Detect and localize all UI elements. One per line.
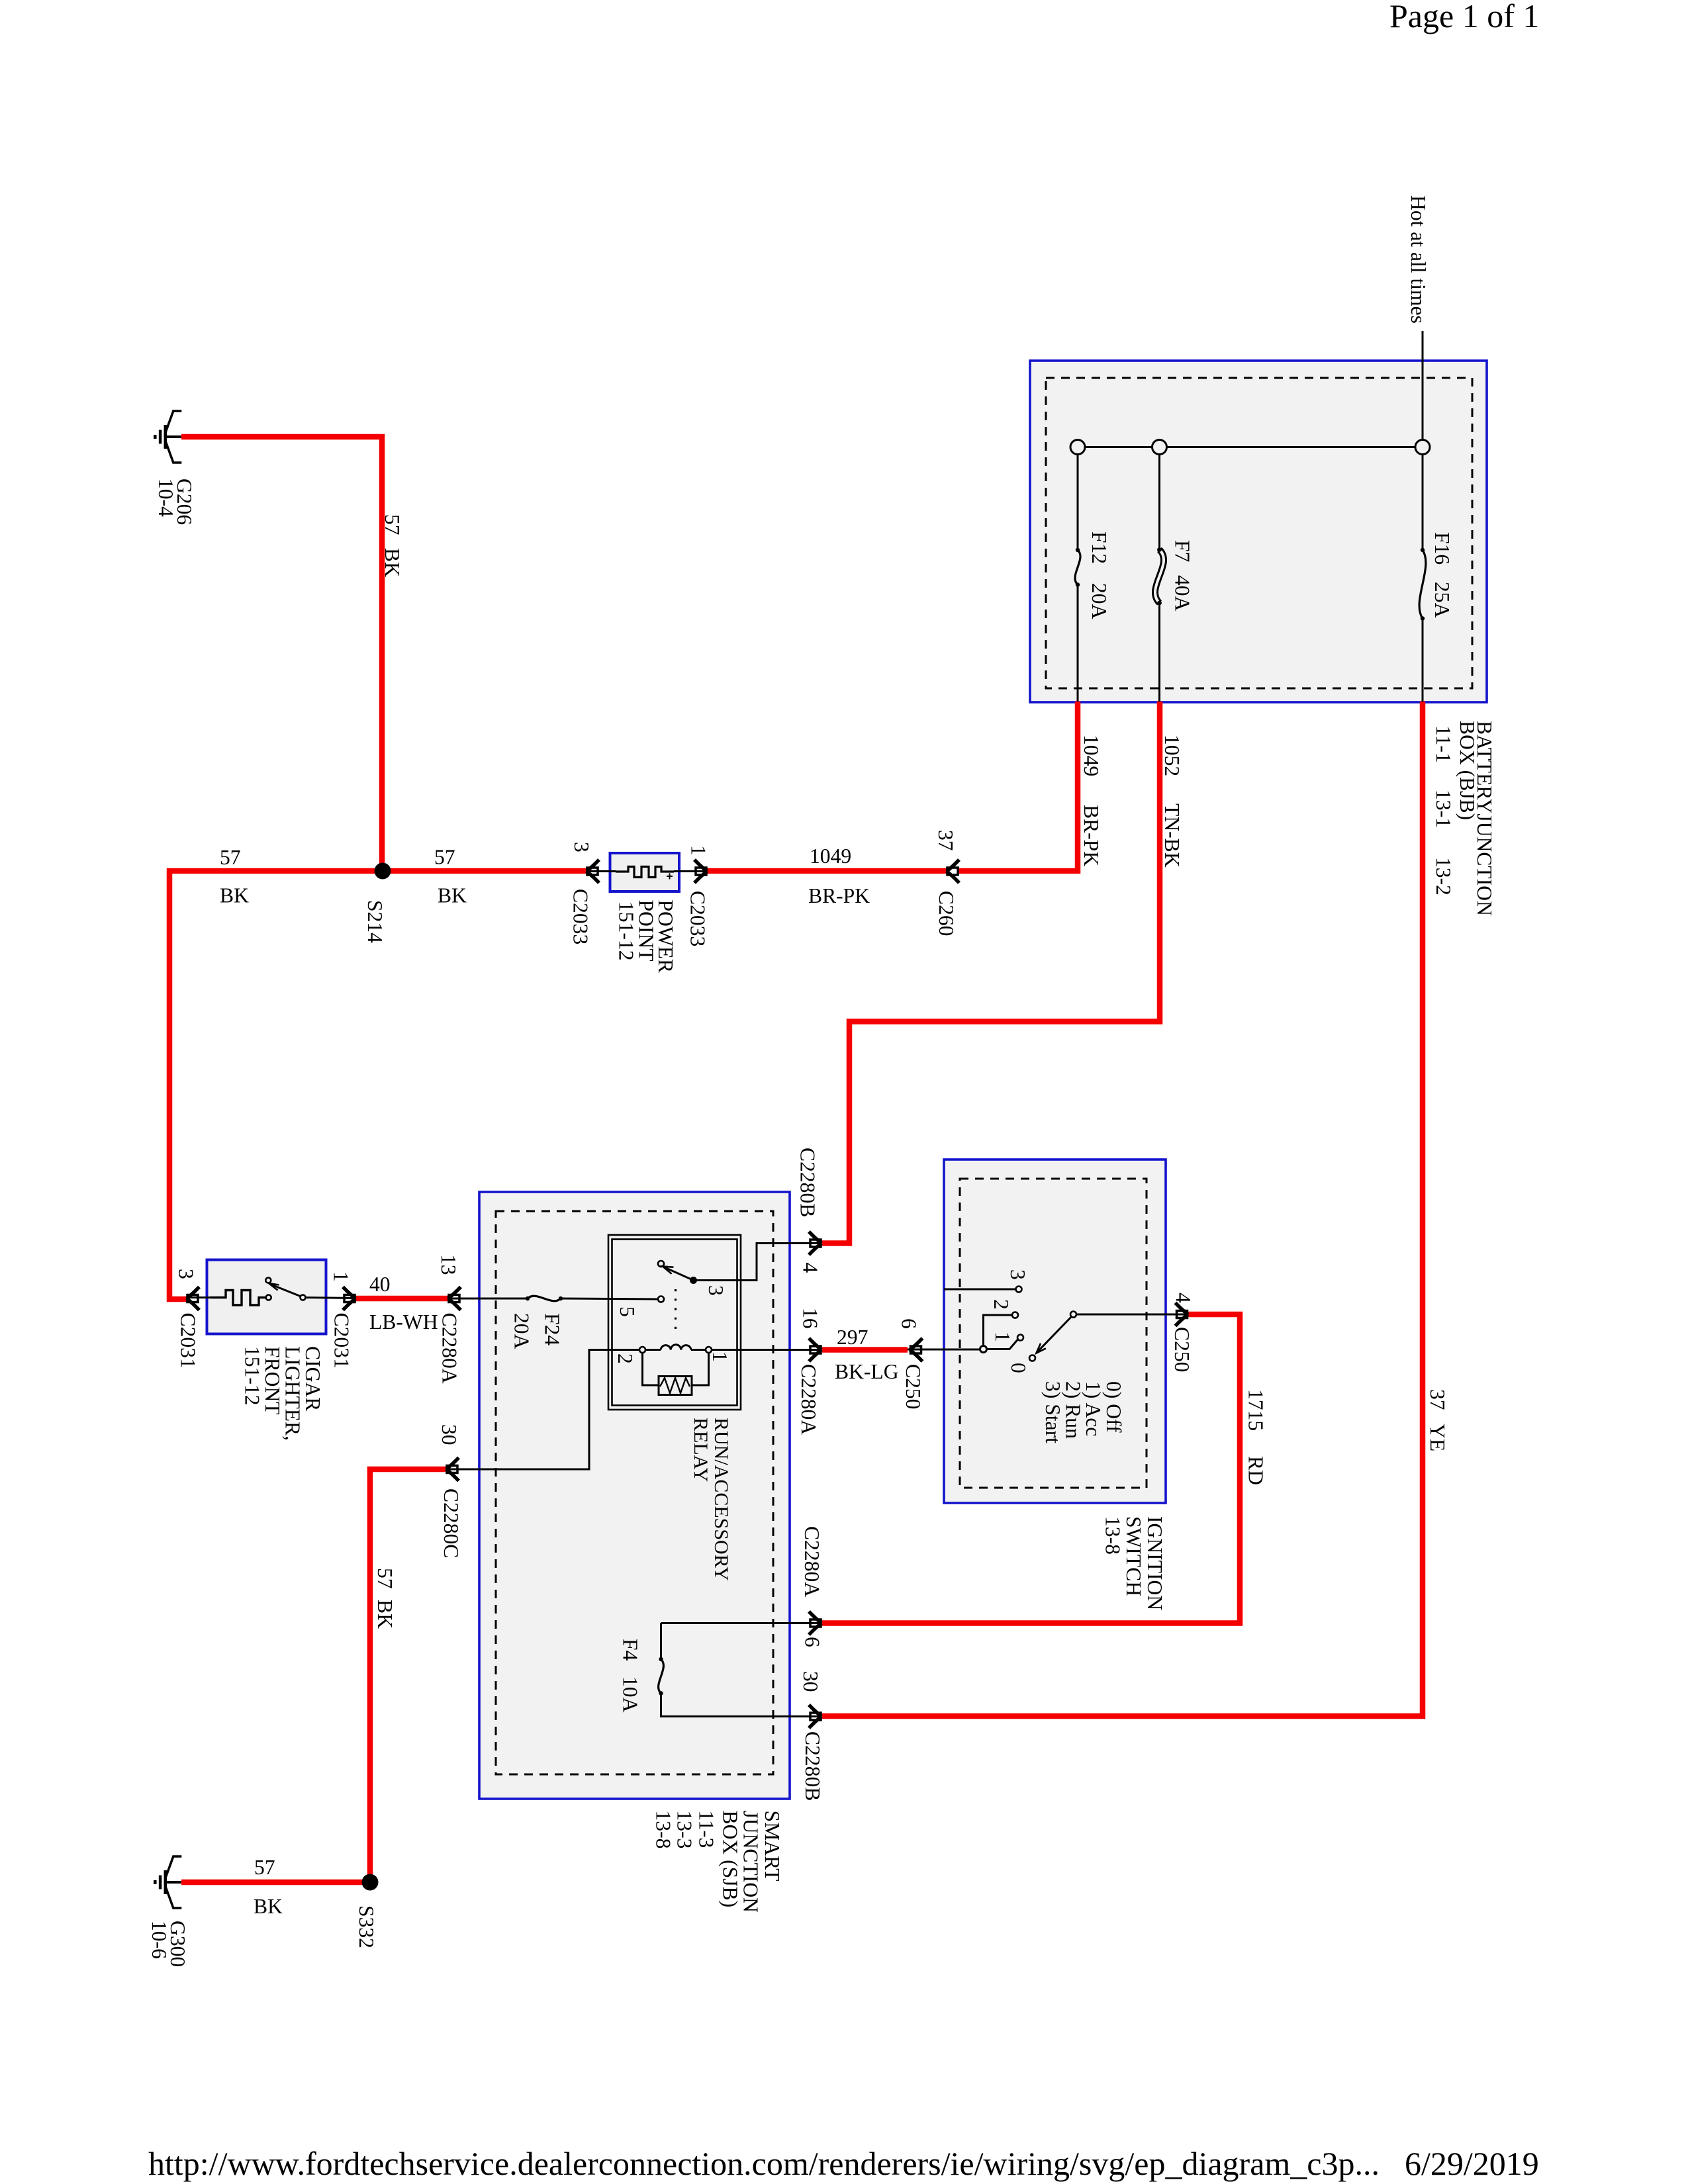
ground G206 <box>155 411 181 463</box>
svg-text:C2031: C2031 <box>330 1313 353 1369</box>
svg-text:151-12: 151-12 <box>241 1346 264 1406</box>
splice S332 <box>362 1874 379 1891</box>
svg-text:C2280A: C2280A <box>438 1313 461 1384</box>
svg-text:57: 57 <box>254 1856 275 1879</box>
ignition contact 0 <box>1029 1355 1035 1361</box>
svg-text:1049: 1049 <box>1080 735 1103 776</box>
svg-text:1: 1 <box>991 1332 1014 1342</box>
svg-text:3) Start: 3) Start <box>1041 1381 1064 1443</box>
svg-text:0: 0 <box>1007 1363 1030 1373</box>
svg-text:30: 30 <box>799 1671 822 1692</box>
svg-text:BK: BK <box>220 884 249 907</box>
svg-text:C2280B: C2280B <box>801 1731 824 1801</box>
fuse F7 40A (fusible link) <box>1158 455 1160 550</box>
svg-text:C2280A: C2280A <box>797 1364 820 1435</box>
svg-text:297: 297 <box>837 1326 868 1349</box>
splice S214 <box>375 863 391 880</box>
svg-text:YE: YE <box>1426 1424 1449 1451</box>
svg-text:4: 4 <box>1172 1293 1195 1303</box>
svg-text:RD: RD <box>1244 1456 1268 1485</box>
svg-text:F16: F16 <box>1430 532 1454 565</box>
wire from C2033 pin 3 into power point <box>586 870 616 872</box>
svg-text:F7: F7 <box>1171 540 1194 562</box>
svg-text:SWITCH: SWITCH <box>1122 1516 1145 1596</box>
ignition contact 2 <box>1012 1312 1018 1318</box>
BJB bus node F12 <box>1070 440 1085 455</box>
svg-text:13-2: 13-2 <box>1432 857 1455 895</box>
svg-text:F24: F24 <box>541 1313 564 1345</box>
svg-text:37: 37 <box>934 830 957 851</box>
cigar lighter heater element <box>211 1291 265 1306</box>
ignition junction node <box>980 1346 987 1353</box>
cigar lighter upper contact <box>265 1278 271 1283</box>
svg-text:C250: C250 <box>902 1364 925 1409</box>
relay coil <box>639 1347 645 1353</box>
wire from relay pin 2 to C2280C pin 30 <box>446 1350 639 1470</box>
ignition switch pin 3 wire <box>944 1289 1015 1291</box>
relay resistor parallel branch <box>643 1353 659 1385</box>
svg-text:BOX (BJB): BOX (BJB) <box>1456 721 1479 820</box>
connector C250 pin 4 arrow <box>1176 1303 1188 1326</box>
svg-text:1052: 1052 <box>1160 735 1184 776</box>
BJB bus node F7 <box>1152 440 1167 455</box>
svg-text:13: 13 <box>437 1254 460 1275</box>
svg-text:BK: BK <box>373 1600 397 1629</box>
wire from C2280A pin 13 to fuse F24 <box>448 1298 528 1300</box>
wire 1049 BR-PK from C2033 pin 1 to C260 <box>707 868 947 874</box>
wire 1049 BR-PK from C260 up to BJB fuse F12 <box>959 702 1078 871</box>
wire 40 LB-WH from cigar lighter C2031 pin 1 to SJB C2280A pin 13 <box>355 1296 448 1302</box>
wire 297 BK-LG from SJB C2280A pin 16 to ignition switch C250 pin 6 <box>822 1347 908 1353</box>
wire from C2031 pin 3 into cigar lighter <box>187 1297 211 1298</box>
svg-text:10-6: 10-6 <box>148 1921 171 1959</box>
connector C2033 pin 1 arrow <box>694 860 707 883</box>
run/accessory relay double box <box>608 1235 741 1410</box>
smart junction box (SJB) outline <box>479 1192 790 1799</box>
battery junction box (BJB) outline <box>1030 361 1487 702</box>
svg-text:30: 30 <box>438 1424 461 1445</box>
wire from relay pin 1 to C2280A pin 16 <box>712 1349 821 1351</box>
svg-text:C260: C260 <box>935 891 958 936</box>
svg-text:11-3: 11-3 <box>695 1811 718 1848</box>
svg-text:40A: 40A <box>1171 575 1194 612</box>
svg-text:3: 3 <box>1006 1269 1029 1280</box>
BJB internal bus <box>1078 446 1423 448</box>
svg-text:20A: 20A <box>510 1313 534 1349</box>
relay switch arm with arrow <box>690 1277 697 1284</box>
svg-text:6: 6 <box>801 1637 824 1647</box>
junction to contact 2 <box>984 1315 1013 1346</box>
ignition switch box outline <box>944 1160 1166 1503</box>
svg-text:57: 57 <box>220 846 241 869</box>
svg-text:BK: BK <box>381 548 404 577</box>
svg-text:BOX (SJB): BOX (SJB) <box>719 1811 742 1908</box>
svg-text:11-1: 11-1 <box>1432 725 1455 763</box>
svg-text:TN-BK: TN-BK <box>1160 803 1184 868</box>
svg-text:RUN/ACCESSORY: RUN/ACCESSORY <box>710 1418 732 1581</box>
svg-text:F4: F4 <box>619 1639 642 1661</box>
wire 57 BK from S214 left and down to cigar lighter C2031 pin 3 <box>169 871 383 1299</box>
svg-text:3: 3 <box>704 1285 727 1296</box>
svg-text:C2280C: C2280C <box>440 1488 463 1558</box>
relay pin 5 contact <box>658 1297 664 1302</box>
svg-text:10-4: 10-4 <box>154 478 177 517</box>
svg-text:10A: 10A <box>619 1676 642 1713</box>
svg-text:3: 3 <box>175 1269 198 1279</box>
ignition switch dashed inner border <box>960 1179 1147 1488</box>
svg-text:Page 1 of 1: Page 1 of 1 <box>1389 0 1539 34</box>
svg-text:57: 57 <box>434 846 455 869</box>
wire 37 YE from BJB fuse F16 down to SJB C2280B pin 30 <box>822 702 1423 1716</box>
wire 57 BK from S214 to power point C2033 pin 3 <box>383 868 586 874</box>
wire from C250 pin 6 to ignition junction <box>908 1349 980 1351</box>
connector C2280B pin 4 arrow <box>809 1232 821 1255</box>
connector C2280B pin 30 arrow <box>809 1705 821 1728</box>
svg-text:LB-WH: LB-WH <box>369 1310 438 1334</box>
wire 1715 RD from ignition switch C250 pin 4 to SJB C2280A pin 6 <box>822 1314 1240 1623</box>
cigar lighter right contact <box>301 1295 306 1300</box>
svg-text:6/29/2019: 6/29/2019 <box>1405 2145 1539 2182</box>
ignition contact 3 <box>1016 1287 1022 1293</box>
SJB fuse F4 wire from C2280A pin 6 <box>661 1622 822 1624</box>
relay resistor <box>659 1377 692 1395</box>
svg-text:5: 5 <box>616 1306 639 1317</box>
svg-text:C2031: C2031 <box>177 1313 200 1369</box>
svg-text:1049: 1049 <box>810 844 851 868</box>
fuse F16 25A <box>1422 455 1424 551</box>
svg-text:RELAY: RELAY <box>690 1418 712 1482</box>
svg-text:C2033: C2033 <box>686 891 710 946</box>
svg-text:1: 1 <box>687 845 710 856</box>
wire from cigar lighter to C2031 pin 1 <box>306 1298 356 1298</box>
wire 57 BK from SJB C2280C pin 30 through S332 to G300 <box>181 1469 445 1882</box>
svg-text:BR-PK: BR-PK <box>808 884 870 907</box>
svg-text:C2280B: C2280B <box>796 1148 820 1217</box>
connector C2280A pin 6 arrow <box>809 1612 821 1635</box>
relay mechanical link (dotted) <box>675 1289 677 1332</box>
svg-text:20A: 20A <box>1088 583 1111 619</box>
wire 57 BK from G206 to S214 <box>181 437 382 871</box>
svg-text:4: 4 <box>799 1263 822 1273</box>
svg-text:2: 2 <box>614 1353 637 1364</box>
svg-text:2: 2 <box>990 1299 1013 1310</box>
svg-text:0) Off: 0) Off <box>1102 1381 1125 1433</box>
wire from pivot to C250 pin 4 <box>1076 1314 1188 1316</box>
svg-text:http://www.fordtechservice.dea: http://www.fordtechservice.dealerconnect… <box>148 2145 1380 2182</box>
connector C2031 pin 3 arrow <box>187 1287 199 1310</box>
hot at all times feed into BJB <box>1422 331 1424 440</box>
junction to contact 1 <box>987 1340 1018 1349</box>
power point heater element <box>616 867 674 878</box>
svg-text:13-3: 13-3 <box>673 1811 696 1849</box>
fuse F24 20A <box>526 1297 530 1300</box>
svg-text:151-12: 151-12 <box>615 901 638 961</box>
svg-text:16: 16 <box>799 1308 822 1329</box>
svg-text:S332: S332 <box>355 1905 378 1948</box>
cigar lighter box outline <box>207 1260 326 1334</box>
svg-text:BR-PK: BR-PK <box>1080 805 1103 866</box>
svg-text:BK: BK <box>254 1895 283 1918</box>
connector C2033 pin 3 arrow <box>586 860 599 883</box>
ignition rotor arm with arrow <box>1038 1317 1072 1351</box>
svg-text:1: 1 <box>708 1351 731 1362</box>
svg-text:1715: 1715 <box>1244 1389 1268 1431</box>
cigar lighter bimetal arm with arrow <box>271 1285 301 1297</box>
BJB dashed inner border <box>1046 378 1472 688</box>
svg-text:57: 57 <box>381 514 404 535</box>
svg-text:Hot at all times: Hot at all times <box>1407 195 1430 324</box>
svg-text:1: 1 <box>330 1271 353 1282</box>
power point + mark <box>667 874 673 880</box>
connector C2280A pin 16 arrow <box>809 1338 821 1361</box>
wire from relay pin 3 to C2280B pin 4 <box>694 1244 822 1281</box>
connector C2280C pin 30 arrow <box>446 1458 459 1481</box>
relay pin 3 contact <box>658 1261 664 1267</box>
wire from power point to C2033 pin 1 <box>674 870 707 872</box>
svg-text:13-8: 13-8 <box>652 1811 675 1849</box>
cigar lighter element contact <box>266 1295 271 1300</box>
svg-text:C250: C250 <box>1170 1327 1194 1372</box>
svg-text:57: 57 <box>373 1568 397 1589</box>
BJB bus node F16 <box>1415 440 1430 455</box>
wire from fuse F24 to relay pin 5 <box>561 1298 658 1299</box>
fuse F12 20A <box>1077 455 1079 551</box>
power point box outline <box>610 853 680 891</box>
wire 1052 TN-BK from BJB fuse F7 down to SJB C2280B pin 4 <box>822 702 1160 1244</box>
svg-text:BK: BK <box>438 884 467 907</box>
fuse F4 10A <box>659 1657 663 1661</box>
ignition rotor arm pivot <box>1070 1312 1076 1318</box>
connector C2031 pin 1 arrow <box>343 1287 355 1310</box>
svg-text:F12: F12 <box>1088 531 1111 564</box>
svg-text:13-1: 13-1 <box>1432 790 1455 828</box>
svg-text:BK-LG: BK-LG <box>835 1360 899 1383</box>
connector C260 arrow <box>947 860 959 883</box>
svg-text:3: 3 <box>570 842 593 852</box>
connector C2280A pin 13 arrow <box>448 1287 461 1310</box>
svg-text:S214: S214 <box>363 900 387 943</box>
connector C250 pin 6 arrow <box>910 1338 923 1361</box>
SJB dashed inner border <box>496 1211 773 1774</box>
ground G300 <box>155 1856 181 1908</box>
svg-text:C2033: C2033 <box>569 889 592 944</box>
svg-text:25A: 25A <box>1430 582 1454 618</box>
svg-text:IGNITION: IGNITION <box>1143 1516 1166 1610</box>
svg-text:SMART: SMART <box>761 1811 784 1882</box>
svg-text:40: 40 <box>369 1273 391 1296</box>
svg-text:6: 6 <box>898 1318 921 1329</box>
ignition contact 1 <box>1017 1335 1023 1341</box>
wire from fuse F4 to C2280B pin 30 <box>661 1694 822 1717</box>
svg-text:JUNCTION: JUNCTION <box>739 1811 763 1913</box>
svg-text:13-8: 13-8 <box>1102 1516 1125 1555</box>
svg-text:37: 37 <box>1426 1389 1449 1410</box>
svg-text:C2280A: C2280A <box>800 1526 823 1597</box>
